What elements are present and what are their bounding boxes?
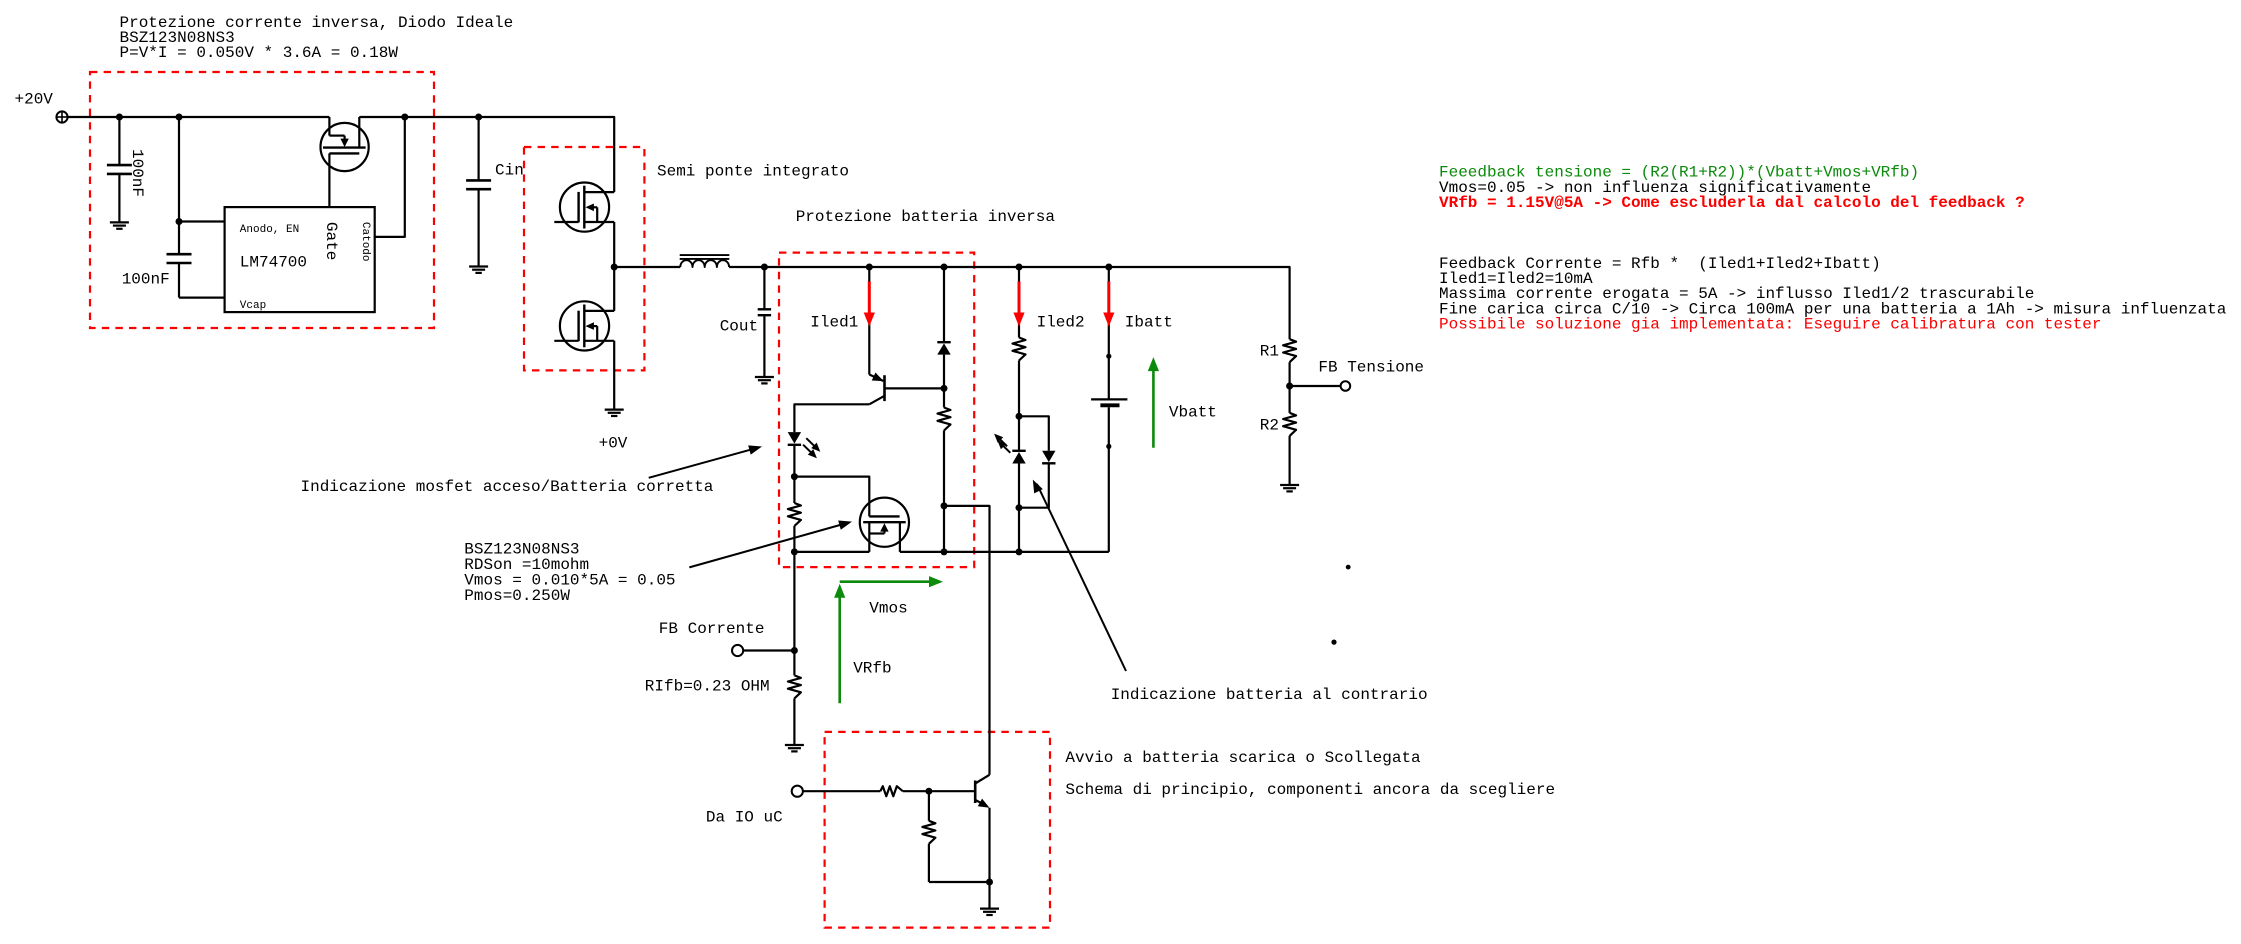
label +20V bbox=[15, 91, 54, 109]
voltage arrow VRfb (green) bbox=[834, 584, 845, 704]
junction node rail/diode branch bbox=[941, 264, 948, 271]
wire mid node to Q3 drain bbox=[613, 267, 615, 311]
ic U1 LM74700 body bbox=[225, 207, 375, 312]
junction node Q5 base / R6 bbox=[925, 788, 932, 795]
ground +0V bbox=[605, 410, 624, 416]
junction node bottom rail / R3 bbox=[791, 548, 798, 555]
svg-text:Semi ponte integrato: Semi ponte integrato bbox=[657, 162, 849, 180]
resistor R7 (base series) bbox=[880, 786, 903, 796]
junction node on +20V rail at anode branch bbox=[176, 114, 183, 121]
voltage arrow Vbatt (green) bbox=[1148, 357, 1159, 448]
note: BSZ123N08NS3 RDSon block bbox=[464, 541, 675, 605]
inductor L1 bbox=[680, 255, 730, 267]
wire Catodo pin to rail bbox=[375, 117, 405, 237]
resistor RIfb 0.23 OHM bbox=[788, 651, 801, 746]
wire D1 cathode down bbox=[793, 445, 795, 477]
svg-text:Vcap: Vcap bbox=[240, 300, 266, 312]
note: VRfb come escluderla (red bold) bbox=[1439, 194, 2025, 212]
note: Vmos non influenza bbox=[1439, 179, 1871, 197]
capacitor C2 100nF bbox=[167, 222, 192, 298]
ground under RIfb bbox=[785, 745, 804, 751]
node battery + terminal bbox=[1106, 354, 1111, 359]
ground under C1 bbox=[110, 222, 129, 228]
ground under Q5 bbox=[980, 909, 999, 915]
svg-text:Pmos=0.250W: Pmos=0.250W bbox=[464, 587, 570, 605]
wire output rail bbox=[729, 267, 1290, 339]
led D1 (mosfet-on indicator) bbox=[788, 432, 821, 458]
junction node bottom rail / Iled2 branch bbox=[1016, 548, 1023, 555]
note: Schema di principio bbox=[1065, 781, 1555, 799]
pin label Anodo, EN bbox=[240, 224, 299, 236]
resistor R3 (LED series) bbox=[788, 477, 801, 552]
svg-text:VRfb: VRfb bbox=[853, 659, 891, 677]
wire Q3 source to ground bbox=[613, 341, 615, 410]
svg-text:Da IO uC: Da IO uC bbox=[706, 809, 783, 827]
capacitor Cout bbox=[758, 267, 771, 377]
node battery - terminal bbox=[1106, 444, 1111, 449]
svg-text:P=V*I = 0.050V * 3.6A = 0.18W: P=V*I = 0.050V * 3.6A = 0.18W bbox=[120, 44, 399, 62]
note: Protezione corrente inversa block bbox=[120, 14, 514, 62]
dashed group box: Protezione corrente inversa bbox=[90, 72, 434, 328]
svg-text:Cout: Cout bbox=[720, 318, 758, 336]
wire +20V rail (left segment) bbox=[68, 116, 330, 118]
resistor R4 (PNP base) bbox=[938, 388, 951, 506]
svg-text:Indicazione batteria al contra: Indicazione batteria al contrario bbox=[1111, 686, 1428, 704]
junction node on +20V rail at C1 bbox=[116, 114, 123, 121]
label 100nF (rotated) for C1 bbox=[128, 149, 146, 197]
wire +20V rail (right of ideal-diode mosfet) to half-bridge drain bbox=[359, 117, 614, 192]
label Semi ponte integrato bbox=[657, 162, 849, 180]
wire rail to Anodo,EN pin bbox=[179, 117, 225, 222]
label Cin bbox=[495, 162, 524, 180]
diode D4 (anti-parallel) bbox=[1019, 416, 1056, 507]
transistor Q5 (NPN, startup) bbox=[975, 775, 989, 808]
svg-text:Iled2: Iled2 bbox=[1037, 314, 1085, 332]
mosfet Q3 (half-bridge low side) bbox=[554, 301, 614, 350]
wire bottom rail (right of M2) bbox=[900, 551, 1109, 553]
annotation arrow to D1 bbox=[649, 445, 762, 477]
svg-text:Schema di principio, component: Schema di principio, componenti ancora d… bbox=[1065, 781, 1555, 799]
diode D2 (freewheel up) bbox=[937, 267, 950, 388]
resistor R2 bbox=[1283, 386, 1296, 485]
dashed group box: Avvio a batteria scarica bbox=[825, 732, 1050, 928]
note: Indicazione mosfet acceso bbox=[301, 478, 714, 496]
label FB Tensione bbox=[1318, 359, 1424, 377]
svg-text:Protezione batteria inversa: Protezione batteria inversa bbox=[796, 208, 1056, 226]
svg-text:FB Corrente: FB Corrente bbox=[659, 620, 765, 638]
pin label Gate (rotated) bbox=[322, 222, 340, 260]
note: feedback tensione (green) bbox=[1439, 164, 1919, 182]
annotation arrow to M2 bbox=[689, 521, 852, 568]
current arrow Ibatt (red) bbox=[1103, 281, 1114, 326]
junction node rail/battery branch bbox=[1105, 264, 1112, 271]
svg-text:100nF: 100nF bbox=[128, 149, 146, 197]
svg-text:Vmos: Vmos bbox=[869, 600, 907, 618]
wire startup transistor collector run bbox=[944, 506, 990, 775]
svg-text:VRfb = 1.15V@5A -> Come esclud: VRfb = 1.15V@5A -> Come escluderla dal c… bbox=[1439, 194, 2025, 212]
label R1 bbox=[1260, 343, 1279, 361]
junction node Q4 base / diode branch bbox=[941, 385, 948, 392]
wire C2 to Vcap pin bbox=[179, 297, 225, 299]
svg-text:Cin: Cin bbox=[495, 162, 524, 180]
junction node divider tap bbox=[1286, 383, 1293, 390]
wire D1 node to M2 gate bbox=[794, 477, 869, 517]
pin label Vcap bbox=[240, 300, 266, 312]
mosfet Q1 BSZ123N08NS3 (ideal diode) bbox=[321, 117, 369, 207]
ground under Cin bbox=[469, 267, 488, 273]
current arrow Iled1 (red) bbox=[864, 281, 875, 326]
transistor Q4 (PNP, LED driver) bbox=[869, 372, 944, 404]
label RIfb=0.23 OHM bbox=[645, 677, 770, 695]
junction node rail/Cout bbox=[761, 264, 768, 271]
svg-text:Iled1: Iled1 bbox=[810, 314, 858, 332]
junction node R4 / startup collector bbox=[941, 502, 948, 509]
junction node rail/Iled2 branch bbox=[1016, 264, 1023, 271]
svg-text:Avvio a batteria scarica o Sco: Avvio a batteria scarica o Scollegata bbox=[1065, 749, 1421, 767]
junction node rail/Cin bbox=[475, 114, 482, 121]
svg-text:RIfb=0.23 OHM: RIfb=0.23 OHM bbox=[645, 677, 770, 695]
wire terminal to R7 bbox=[803, 790, 880, 792]
mosfet M2 BSZ123N08NS3 (battery protection, RDSon=10mohm) bbox=[860, 498, 909, 552]
annotation arrow to D3/D4 (batteria al contrario) bbox=[1033, 480, 1126, 671]
note: Avvio a batteria scarica bbox=[1065, 749, 1421, 767]
label LM74700 bbox=[240, 254, 307, 272]
voltage arrow Vmos (green) bbox=[840, 576, 943, 587]
capacitor C1 100nF bbox=[107, 117, 132, 222]
junction node FB corrente bbox=[791, 647, 798, 654]
svg-text:Catodo: Catodo bbox=[359, 222, 371, 262]
wire Q5 emitter down bbox=[988, 808, 990, 882]
label 100nF for C2 bbox=[122, 271, 170, 289]
junction node emitter/R6 bbox=[986, 879, 993, 886]
junction node anodo/C2 bbox=[176, 218, 183, 225]
wire led pair to bottom rail bbox=[1018, 508, 1020, 552]
junction node rail/catodo riser bbox=[401, 114, 408, 121]
wire Q2 source to mid node bbox=[613, 222, 615, 267]
svg-text:Gate: Gate bbox=[322, 222, 340, 260]
wire FB corrente terminal to node bbox=[743, 649, 794, 651]
label Da IO uC bbox=[706, 809, 783, 827]
resistor R5 (Iled2 series) bbox=[1013, 338, 1026, 417]
label Vbatt bbox=[1169, 404, 1217, 422]
wire R4 node to bottom rail bbox=[943, 506, 945, 552]
label Iled1 bbox=[810, 314, 858, 332]
svg-text:Indicazione mosfet acceso/Batt: Indicazione mosfet acceso/Batteria corre… bbox=[301, 478, 714, 496]
label Vmos bbox=[869, 600, 907, 618]
terminal FB Corrente bbox=[732, 645, 743, 656]
wire rail to Q4 emitter bbox=[868, 267, 870, 375]
wire R6 bottom to emitter node bbox=[929, 881, 990, 883]
svg-text:R1: R1 bbox=[1260, 343, 1279, 361]
junction node rail/Iled1 branch bbox=[866, 264, 873, 271]
svg-text:Ibatt: Ibatt bbox=[1125, 314, 1173, 332]
svg-text:R2: R2 bbox=[1260, 416, 1279, 434]
svg-text:100nF: 100nF bbox=[122, 271, 170, 289]
terminal FB Tensione bbox=[1341, 381, 1351, 391]
svg-text:LM74700: LM74700 bbox=[240, 254, 307, 272]
svg-text:Anodo, EN: Anodo, EN bbox=[240, 224, 299, 236]
svg-text:FB Tensione: FB Tensione bbox=[1318, 359, 1424, 377]
svg-text:Possibile soluzione gia implem: Possibile soluzione gia implementata: Es… bbox=[1439, 315, 2102, 333]
stray dot upper bbox=[1346, 565, 1351, 570]
stray dot lower bbox=[1331, 640, 1336, 645]
input terminal +20V bbox=[56, 111, 67, 122]
wire R7 to Q5 base bbox=[903, 790, 975, 792]
resistor R1 bbox=[1283, 339, 1296, 386]
label Iled2 bbox=[1037, 314, 1085, 332]
terminal Da IO uC bbox=[792, 786, 803, 797]
junction node R5 / led pair top bbox=[1016, 413, 1023, 420]
wire bottom rail (left of M2) bbox=[794, 551, 869, 553]
dashed group box: Protezione batteria inversa bbox=[779, 253, 974, 567]
label +0V bbox=[599, 435, 628, 453]
wire emitter node to ground bbox=[988, 882, 990, 909]
label Ibatt bbox=[1125, 314, 1173, 332]
note: Indicazione batteria al contrario bbox=[1111, 686, 1428, 704]
wire battery - to bottom rail bbox=[1108, 407, 1110, 552]
wire mid node to inductor bbox=[614, 266, 680, 268]
resistor R6 (base-emitter) bbox=[922, 791, 935, 882]
pin label Catodo (rotated) bbox=[359, 222, 371, 262]
svg-text:+20V: +20V bbox=[15, 91, 54, 109]
ground under Cout bbox=[755, 377, 774, 383]
wire tap to FB Tensione terminal bbox=[1290, 385, 1341, 387]
note: feedback corrente block bbox=[1439, 255, 2227, 318]
junction node half-bridge mid bbox=[611, 264, 618, 271]
wire rail to battery + bbox=[1108, 267, 1110, 400]
junction node led pair bottom bbox=[1016, 504, 1023, 511]
svg-text:Vbatt: Vbatt bbox=[1169, 404, 1217, 422]
junction node bottom rail / diode branch bbox=[941, 548, 948, 555]
label FB Corrente bbox=[659, 620, 765, 638]
note: Protezione batteria inversa bbox=[796, 208, 1056, 226]
note: possibile soluzione (red) bbox=[1439, 315, 2102, 333]
label Cout bbox=[720, 318, 758, 336]
wire bottom rail to FB corrente node bbox=[793, 552, 795, 651]
wire rail to R5 bbox=[1018, 267, 1020, 338]
led D3 (reverse battery indicator) bbox=[994, 416, 1026, 507]
battery V1 bbox=[1091, 399, 1127, 405]
label VRfb bbox=[853, 659, 891, 677]
junction node D1/R3/M2-gate bbox=[791, 473, 798, 480]
mosfet Q2 (half-bridge high side) bbox=[554, 183, 614, 232]
ground under R2 bbox=[1280, 485, 1299, 491]
label R2 bbox=[1260, 416, 1279, 434]
current arrow Iled2 (red) bbox=[1013, 281, 1024, 326]
capacitor Cin bbox=[466, 117, 491, 267]
svg-text:+0V: +0V bbox=[599, 435, 628, 453]
dashed group box: Semi ponte integrato bbox=[524, 147, 644, 370]
wire Q4 collector to LED D1 bbox=[794, 404, 869, 432]
